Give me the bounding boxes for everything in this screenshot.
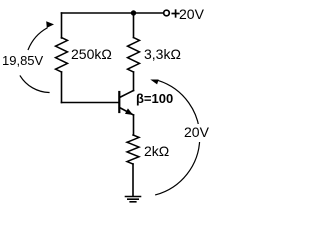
transistor Q1 emitter diagonal xyxy=(120,108,134,116)
resistor 2kΩ xyxy=(127,135,139,164)
arrow arc for 19,85V, upper segment (across 250kΩ) xyxy=(28,28,47,50)
terminal +20V (open circle) xyxy=(164,10,170,16)
arrowhead of 19,85V arc xyxy=(46,21,54,28)
wire collector vertical xyxy=(133,72,135,91)
arrow arc for 19,85V, lower segment xyxy=(20,76,49,93)
wire left branch lower segment xyxy=(61,72,63,103)
label 19,85V xyxy=(1,53,44,68)
wire from top rail to 3,3kΩ xyxy=(133,13,135,38)
plus sign of +20V label xyxy=(172,10,179,17)
wire from 2kΩ to ground xyxy=(132,164,134,196)
arrow arc for 20V (output voltage) xyxy=(156,81,200,195)
ground xyxy=(126,197,141,202)
wire base xyxy=(62,102,119,104)
transistor Q1 emitter arrowhead xyxy=(125,108,133,115)
resistor 250kΩ xyxy=(56,38,68,73)
label 2kΩ xyxy=(144,143,169,159)
label +20V xyxy=(179,6,204,22)
transistor Q1 (NPN) base bar xyxy=(118,92,120,112)
wire emitter vertical xyxy=(133,115,135,135)
label 3,3kΩ xyxy=(144,46,181,62)
node junction dot at top of collector branch xyxy=(131,10,136,15)
label 20V xyxy=(183,124,210,142)
label β=100 xyxy=(136,91,173,106)
wire left branch upper segment xyxy=(61,13,63,38)
transistor Q1 collector diagonal xyxy=(120,91,134,98)
arrowhead of 20V arc xyxy=(150,80,158,85)
label 250kΩ xyxy=(71,46,112,62)
wire top rail xyxy=(62,12,164,14)
resistor 3,3kΩ xyxy=(128,38,140,73)
